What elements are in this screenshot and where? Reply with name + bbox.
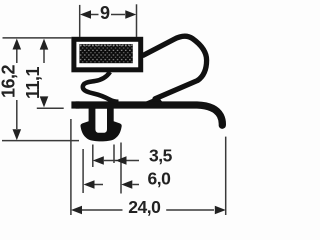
svg-text:24,0: 24,0 [128,197,161,217]
svg-text:16,2: 16,2 [0,65,19,99]
bottom reference line L0 (bar left edge) [70,119,72,215]
anchor foot [81,107,122,141]
dimension 11,1: bottom extension line [37,107,64,109]
balloon loop wall [144,36,207,99]
svg-text:9: 9 [100,3,110,23]
magnet box outer border [74,39,141,70]
magnet insert top speckled row [80,44,133,46]
svg-text:11,1: 11,1 [23,66,43,99]
dimension 9: dimension line with arrows [91,14,99,16]
dimension 16,2: dimension line [16,49,18,63]
dimension 24,0: dimension line with arrows [71,206,82,215]
dimension 16,2: bottom extension line [2,140,79,142]
balloon wall to bar merge fillet [146,97,162,102]
base strip bar [76,105,222,125]
left top extension line [3,37,72,39]
reference line L1 (barb left) [82,149,84,193]
magnet hatched insert [79,44,132,63]
dimension 6,0: arrows and tails [84,180,95,189]
reference line L2b (stem right) [113,145,115,164]
reference line L2 (stem left) [92,145,94,168]
right reference line R (profile right) [225,137,227,215]
reference line L3 (barb right) [120,143,122,194]
dimension 9: right extension line [136,4,138,37]
svg-text:3,5: 3,5 [149,146,173,166]
Z-fold neck from box bottom to base strip [83,72,119,102]
svg-text:6,0: 6,0 [148,169,172,189]
dimension 11,1: dimension line [43,49,45,63]
anchor foot white channel [95,109,107,133]
dimension 3,5: arrows and tails [93,156,104,165]
dimension 9: left extension line [79,5,81,37]
